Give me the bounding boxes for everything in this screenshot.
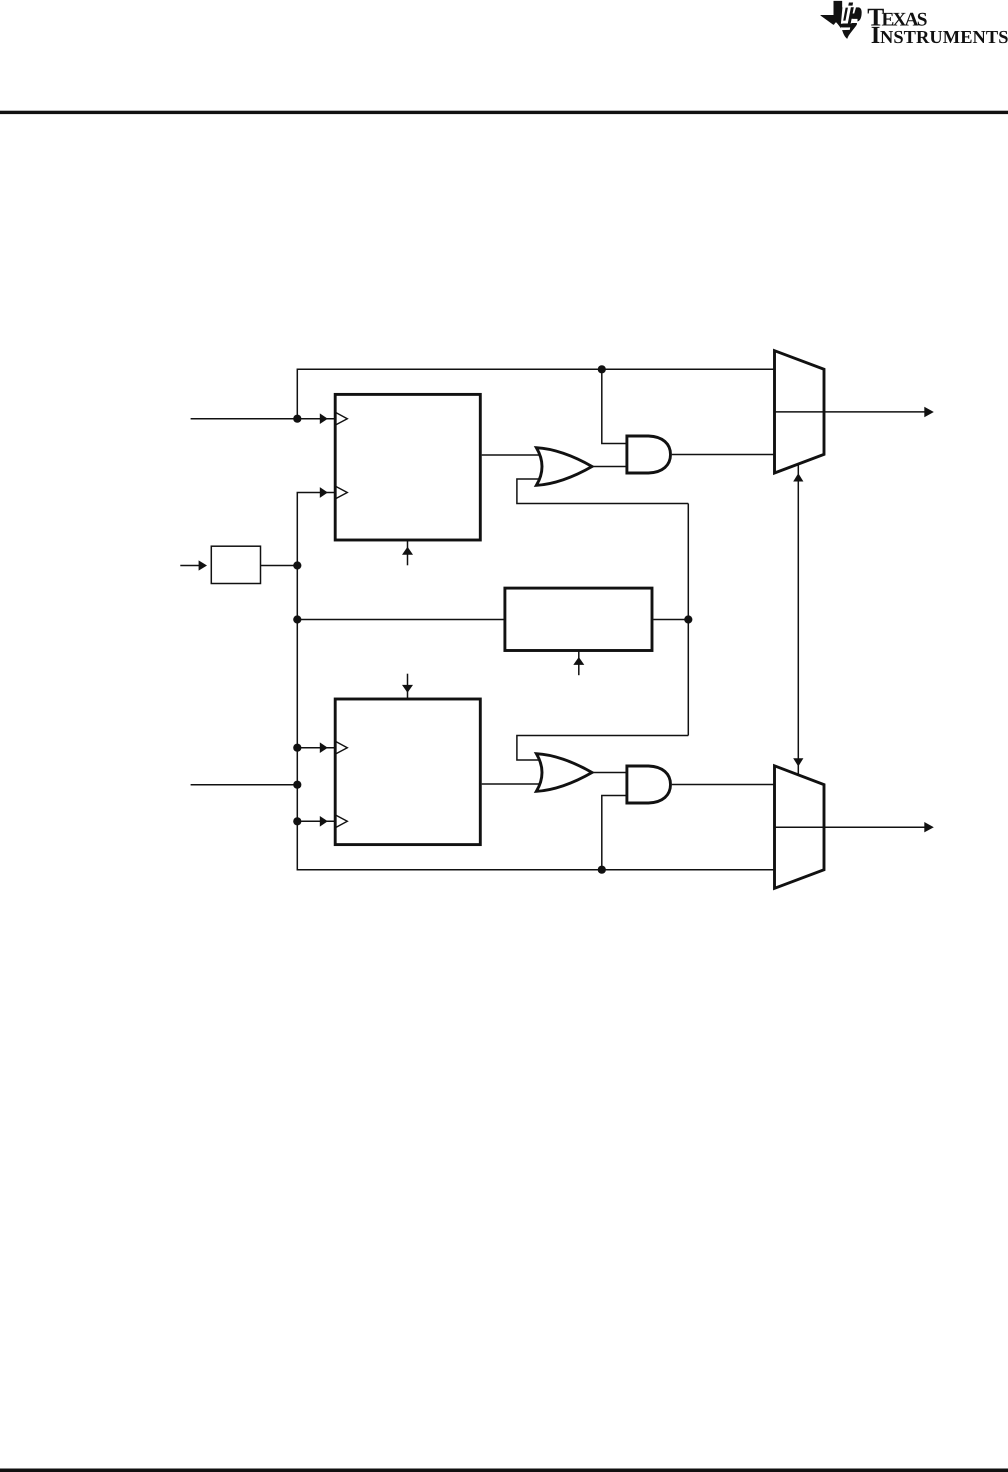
arrowhead: into RSR1 clk2 <box>320 487 328 498</box>
wire: input arrow line into prescaler box <box>180 565 199 567</box>
clock wedge RSR1 clk2 <box>336 487 347 499</box>
wire: RSR1 load strobe stem <box>407 541 409 566</box>
AND gate AND1 <box>627 436 671 473</box>
wire: riser from input1 junction up to top bus, then top bus to MUX1 input A <box>297 369 774 418</box>
junction: prescaler output <box>293 561 301 569</box>
wire: MUX2 output <box>775 826 926 828</box>
junction: bottom bus / AND2 riser <box>598 866 606 874</box>
wire: RSR1 output to OR1 input A <box>482 454 545 456</box>
shift register box RSR1 (top) <box>335 394 480 540</box>
svg-text:I: I <box>871 22 881 49</box>
bottom rule <box>0 1469 1008 1472</box>
clock wedge XSR2 clk2 <box>336 815 347 827</box>
wire: XSR2 output to OR2 input B <box>482 783 545 785</box>
junction: input1 / top bus riser <box>293 415 301 423</box>
wire: clock arrow into XSR2 clk1 <box>297 747 334 749</box>
arrowhead: MUX1 output <box>924 407 934 417</box>
arrowhead: RSR1 load strobe (up) <box>402 547 413 555</box>
arrowhead: into XSR2 clk1 <box>320 742 328 753</box>
wire: XSR2 load strobe stem <box>407 674 409 699</box>
MUX1 (top multiplexer) <box>775 351 825 473</box>
wire: riser from bottom-bus junction to AND2 input B <box>602 796 626 870</box>
arrowhead: select link down (at MUX2 top) <box>793 758 803 766</box>
shift register box XSR2 (bottom) <box>335 699 480 845</box>
junction: XSR2 clk2 tap <box>293 817 301 825</box>
arrowhead: into XSR2 clk2 <box>320 816 328 827</box>
junction: input2 tap <box>293 781 301 789</box>
TI logo Texas emblem <box>820 1 861 39</box>
prescaler box <box>211 546 260 583</box>
arrowhead: XSR2 load strobe (down) <box>402 685 413 693</box>
wire: left vertical bus down to bottom elbow, then bottom bus to MUX2 input B <box>297 566 774 870</box>
arrowhead: into RSR1 clk1 <box>320 413 328 424</box>
wire: OR2 output to AND2 input A <box>590 772 626 774</box>
wire: mux select link (vertical, both muxes) <box>797 465 799 776</box>
junction: register input tap <box>293 615 301 623</box>
wire: register load strobe stem <box>578 651 580 676</box>
wire: clock arrow into RSR1 clk1 <box>297 418 334 420</box>
clock wedge RSR1 clk1 <box>336 413 347 425</box>
AND gate AND2 <box>627 766 671 803</box>
top rule <box>0 111 1008 114</box>
wire: feedback vertical trunk <box>687 504 689 736</box>
holding register box <box>505 588 652 650</box>
junction: register output / feedback trunk <box>684 615 692 623</box>
wire: clock2 feed elbow into RSR1 clk2 <box>297 493 334 566</box>
wire: serial input 2 horizontal <box>191 784 298 786</box>
arrowhead: select link up (at MUX1 bottom) <box>793 473 803 481</box>
junction: XSR2 clk1 tap <box>293 744 301 752</box>
wire: drop from top-bus junction to AND1 input A <box>602 369 626 443</box>
arrowhead: into prescaler box <box>199 560 207 570</box>
wire: prescaler output to junction <box>261 565 298 567</box>
wire: OR1 output to AND1 input B <box>590 466 626 468</box>
wire: serial input 1 horizontal <box>191 418 298 420</box>
clock wedge XSR2 clk1 <box>336 742 347 754</box>
wire: clock arrow into XSR2 clk2 <box>297 820 334 822</box>
wire: feedback lower branch to OR2 input A <box>517 736 688 761</box>
wire: MUX1 output <box>775 411 926 413</box>
MUX2 (bottom multiplexer) <box>775 766 825 889</box>
wire: AND2 output to MUX2 input A <box>672 784 775 786</box>
arrowhead: MUX2 output <box>924 822 934 832</box>
OR gate OR1 <box>536 448 592 486</box>
wire: register output to feedback junction <box>653 619 688 621</box>
wire: feedback upper branch to OR1 input B <box>517 479 688 504</box>
arrowhead: register load strobe (up) <box>573 657 584 665</box>
wire: AND1 output to MUX1 input B <box>672 454 775 456</box>
wire: register input <box>297 619 503 621</box>
OR gate OR2 <box>536 754 592 792</box>
junction: top bus / AND1 drop <box>598 365 606 373</box>
svg-text:NSTRUMENTS: NSTRUMENTS <box>880 27 1008 47</box>
